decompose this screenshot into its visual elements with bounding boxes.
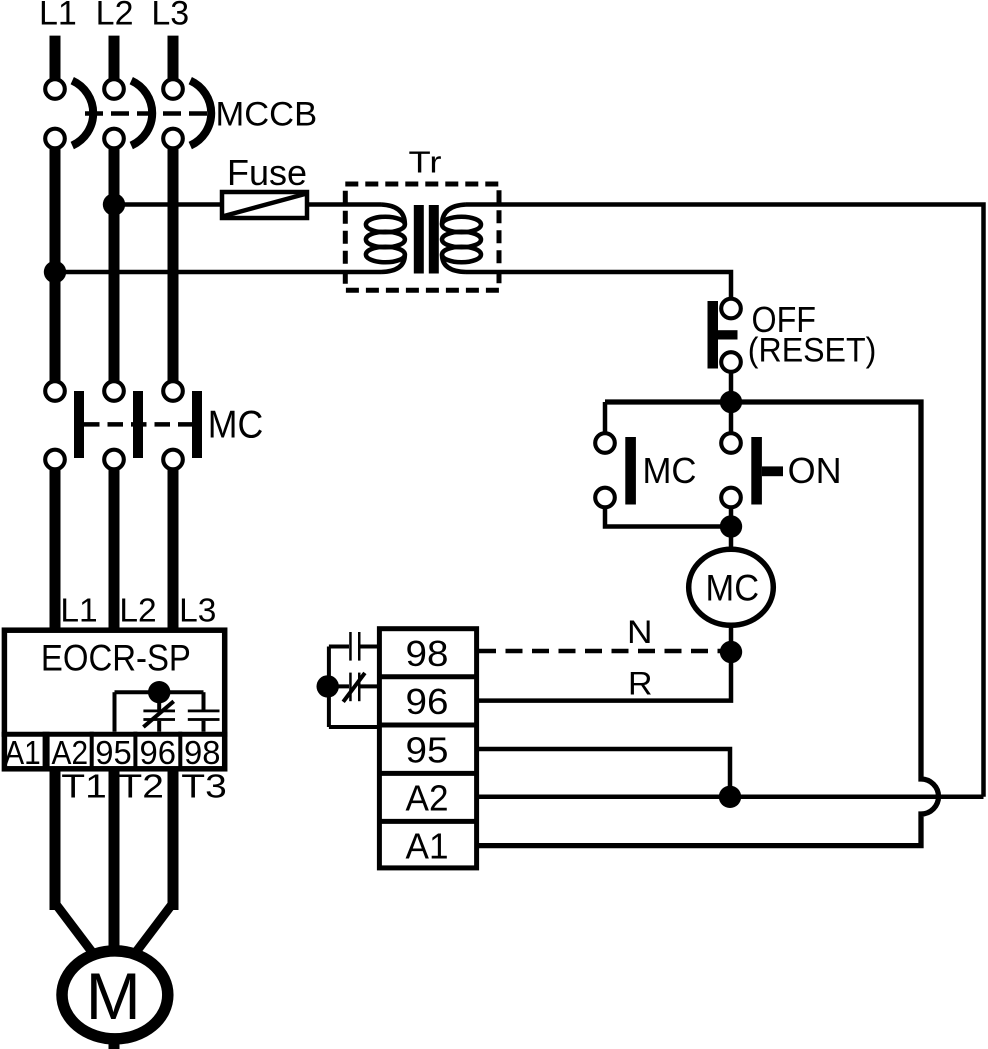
svg-text:95: 95 (406, 729, 449, 770)
svg-text:(RESET): (RESET) (748, 332, 877, 370)
contactor MC pole2 bar (133, 391, 143, 458)
relay internal wire to 95 (113, 692, 117, 732)
wire OFF to rail junction (729, 371, 734, 402)
wire rail to ON button (729, 402, 734, 434)
svg-text:95: 95 (95, 735, 132, 772)
junction dot A2 (719, 786, 741, 808)
wire L3 incoming (168, 36, 179, 80)
svg-text:98: 98 (184, 735, 221, 772)
relay internal NC contact 96 stub bottom (157, 721, 161, 732)
svg-text:T2: T2 (118, 769, 163, 806)
contactor MC pole3 terminals (163, 381, 183, 401)
relay aux NO contact lead right (361, 645, 380, 649)
svg-text:L2: L2 (96, 0, 134, 33)
relay EOCR terminal row divider (2, 732, 228, 737)
svg-text:96: 96 (406, 681, 449, 722)
wire L1 incoming (50, 36, 61, 80)
wire secondary top to right rail (466, 205, 984, 797)
svg-text:96: 96 (140, 735, 177, 772)
relay internal NC contact 96 plates (143, 710, 175, 713)
svg-text:R: R (628, 665, 653, 701)
relay internal NC contact 96 stub top (157, 698, 161, 710)
svg-text:Fuse: Fuse (227, 152, 307, 193)
relay internal NC contact 96 slash (143, 701, 173, 727)
wire MC aux bottom to junction (605, 508, 731, 527)
transformer Tr primary exit hook (381, 255, 405, 273)
svg-text:MC: MC (208, 404, 263, 447)
breaker MCCB dashed link (85, 111, 208, 116)
relay internal common wire (115, 690, 204, 694)
breaker MCCB pole2 terminals (104, 79, 124, 99)
relay internal junction dot (148, 681, 170, 703)
pushbutton ON terminals (721, 433, 741, 453)
breaker MCCB pole2 arc (131, 81, 152, 146)
wire fuse feed from L2 (114, 202, 222, 207)
contactor MC pole2 terminals (104, 381, 124, 401)
contactor MC pole1 terminals (45, 381, 65, 401)
junction dot OFF rail (720, 391, 742, 413)
wire fuse to transformer (307, 202, 381, 207)
wire L3 MC to EOCR (168, 469, 179, 910)
breaker MCCB pole1 arc (72, 81, 93, 146)
junction dot below ON (720, 515, 742, 537)
wire L2 incoming (109, 36, 120, 80)
svg-text:L3: L3 (179, 593, 216, 630)
wire L1 MC to EOCR (50, 469, 61, 910)
relay aux NO contact lead left (329, 645, 349, 649)
relay aux common vertical wire (327, 647, 331, 728)
svg-text:M: M (86, 959, 141, 1033)
breaker MCCB pole1 terminals (45, 79, 65, 99)
contact MC aux bar (625, 437, 636, 505)
transformer Tr core bars (414, 205, 424, 274)
svg-text:MC: MC (643, 450, 697, 491)
svg-text:A2: A2 (406, 778, 449, 819)
wire A2 to right rail (479, 795, 984, 800)
coil MC body (689, 549, 774, 625)
relay aux bottom lead to 95 (329, 725, 380, 729)
contact MC aux terminals (595, 433, 615, 453)
svg-text:L2: L2 (119, 593, 156, 630)
wire L2 MCCB to MC contactor (109, 148, 120, 383)
svg-text:EOCR-SP: EOCR-SP (41, 637, 191, 678)
pushbutton OFF terminals (721, 299, 741, 319)
svg-text:MCCB: MCCB (216, 95, 318, 133)
svg-text:98: 98 (406, 633, 449, 674)
pushbutton OFF bar (708, 301, 719, 369)
relay internal NO contact 98 stub bottom (202, 721, 206, 732)
wire N dashed (479, 649, 722, 654)
svg-text:L1: L1 (39, 0, 77, 33)
wire 95 to A2 junction (479, 749, 730, 797)
svg-text:MC: MC (706, 568, 760, 609)
wire L2 MC to motor (109, 469, 120, 1049)
transformer Tr primary coil loops (366, 217, 405, 233)
svg-text:A1: A1 (406, 826, 449, 867)
wire rail to MC aux contact (603, 402, 608, 434)
svg-text:A2: A2 (52, 735, 89, 772)
wire ON bottom to junction (729, 508, 734, 549)
wire control rail to A1 with hop (477, 402, 939, 846)
pushbutton OFF stub (718, 330, 738, 339)
transformer Tr secondary exit hook (442, 255, 466, 273)
relay aux NC contact lead right (361, 684, 380, 688)
svg-text:Tr: Tr (409, 145, 442, 180)
contactor MC pole1 bar (74, 391, 84, 458)
junction dot N/R (720, 641, 742, 663)
relay aux NC contact lead left (328, 684, 349, 688)
relay aux NO contact plates (349, 632, 352, 661)
contactor MC pole3 bar (192, 391, 202, 458)
svg-text:T3: T3 (181, 769, 227, 806)
wire L3 diagonal to motor (136, 905, 172, 952)
transformer Tr primary entry hook (381, 205, 405, 225)
relay internal NO contact 98 plates (188, 710, 220, 713)
pushbutton ON stub (762, 466, 783, 476)
wire L1 diagonal to motor (57, 905, 93, 952)
junction dot on L1 (44, 261, 66, 283)
terminal block body (379, 629, 476, 868)
relay aux NC contact plates (349, 673, 352, 702)
pushbutton ON bar (751, 437, 762, 505)
svg-text:ON: ON (788, 450, 842, 491)
contactor MC dashed link (84, 422, 192, 427)
relay aux NC contact slash (343, 673, 365, 702)
wire L3 MCCB to MC contactor (168, 148, 179, 383)
junction dot aux common (317, 675, 339, 697)
svg-text:A1: A1 (4, 735, 41, 772)
motor M body (62, 951, 168, 1039)
terminal block dividers (377, 674, 479, 679)
transformer Tr secondary entry hook (442, 205, 466, 225)
relay EOCR terminal dividers vertical (43, 732, 50, 769)
wire transformer bottom to L1 (55, 270, 381, 275)
breaker MCCB pole3 terminals (163, 79, 183, 99)
junction dot on L2 (103, 193, 125, 215)
svg-text:L3: L3 (151, 0, 189, 33)
fuse F1 body (222, 192, 307, 218)
transformer Tr dashed enclosure (345, 184, 499, 290)
breaker MCCB pole3 arc (190, 81, 211, 146)
wire MC coil to R line (479, 625, 731, 701)
relay internal NO contact 98 stub top (202, 692, 206, 710)
wire L1 MCCB to MC contactor (50, 148, 61, 383)
fuse F1 diagonal (224, 194, 305, 216)
svg-text:N: N (627, 614, 653, 650)
wire secondary bottom to OFF button (466, 272, 731, 300)
svg-text:T1: T1 (61, 769, 107, 806)
relay EOCR-SP box (4, 630, 224, 769)
svg-text:L1: L1 (60, 593, 97, 630)
transformer Tr secondary coil loops (442, 217, 481, 233)
